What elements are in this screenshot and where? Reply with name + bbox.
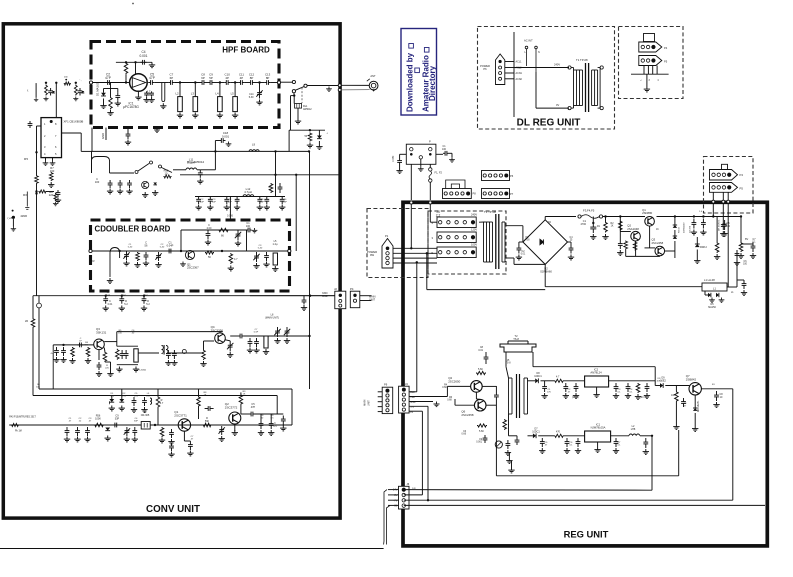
ground IC1: [135, 95, 141, 100]
label C82 label: [478, 346, 483, 352]
svg-text:5P: 5P: [209, 76, 213, 80]
capacitor C82b: [618, 240, 623, 249]
node: [35, 151, 37, 153]
ground L5: [232, 113, 238, 118]
wire to J2: [250, 295, 335, 297]
wire shunt lead: [219, 83, 221, 97]
ground C50: [274, 338, 280, 343]
svg-text:4.7: 4.7: [556, 376, 560, 379]
capacitor C59: [113, 423, 119, 428]
transistor Q4 2SC3356: [215, 333, 226, 344]
wire mixer out: [244, 335, 280, 337]
ground C60: [124, 437, 130, 442]
transistor Q6 2SC2458: [474, 399, 486, 411]
resistor R8v: [54, 193, 57, 201]
node: [258, 81, 260, 83]
svg-text:6P: 6P: [170, 76, 174, 80]
svg-text:120V: 120V: [471, 228, 477, 232]
resistor R1: [124, 62, 128, 74]
wire R22: [240, 392, 242, 394]
svg-text:4P: 4P: [225, 76, 229, 80]
wire: [105, 361, 111, 363]
svg-text:R 6: R 6: [23, 193, 27, 197]
svg-text:3SK131: 3SK131: [96, 330, 107, 334]
ground D2: [316, 144, 322, 149]
diode D8: [533, 433, 536, 438]
label C42 label: [124, 300, 128, 306]
svg-text:P6: P6: [483, 67, 487, 71]
wire sec left down: [508, 414, 510, 436]
svg-text:470: 470: [556, 431, 561, 434]
wire C18 drop: [214, 141, 216, 152]
svg-text:P4: P4: [350, 287, 354, 291]
node: [35, 190, 37, 192]
node: [410, 247, 412, 249]
ground C70: [280, 426, 286, 431]
ground D1: [100, 103, 106, 108]
wire: [541, 380, 555, 382]
connector P5: [639, 56, 662, 66]
ground R8v: [53, 202, 58, 206]
svg-text:(MAIN UNIT): (MAIN UNIT): [265, 316, 279, 319]
label POWER DL label: [480, 64, 490, 71]
svg-text:220: 220: [105, 368, 109, 370]
capacitor C11: [238, 80, 244, 85]
svg-text:10K: 10K: [36, 387, 40, 389]
terminal on CONV border b: [338, 88, 341, 91]
wire P9 stub: [378, 391, 383, 393]
wire Q3 out: [665, 250, 675, 252]
wire cap row: [195, 196, 285, 198]
wire: [519, 241, 523, 243]
wire relay drop: [290, 96, 292, 131]
ground C61: [132, 437, 138, 442]
ground C3: [115, 101, 121, 106]
svg-text:0.04P: 0.04P: [167, 244, 174, 248]
svg-text:J6: J6: [407, 482, 410, 486]
svg-text:0.1: 0.1: [752, 242, 756, 244]
speck +B: [12, 210, 14, 212]
ground C44d: [60, 357, 66, 362]
wire D3b: [696, 250, 698, 259]
node: [604, 215, 606, 217]
ground C101: [449, 157, 455, 162]
node: [179, 81, 181, 83]
wire bridge top: [544, 217, 546, 220]
svg-text:5-30: 5-30: [128, 247, 133, 249]
svg-text:240V: 240V: [554, 63, 560, 67]
capacitor C17: [56, 190, 61, 197]
ground C69: [268, 430, 274, 435]
svg-text:220: 220: [49, 193, 54, 197]
ground C78: [720, 231, 726, 236]
capacitor C83: [494, 386, 499, 406]
wire left bus c: [36, 184, 38, 296]
svg-text:30P: 30P: [260, 202, 264, 204]
resistor R11: [218, 228, 229, 232]
filter element L4: [218, 97, 223, 112]
label D1 label: [540, 267, 552, 274]
ground C82b: [617, 250, 623, 255]
svg-text:ACL1: ACL1: [516, 61, 523, 64]
wire: [93, 82, 130, 84]
capacitor C44b: [77, 343, 83, 348]
svg-text:R 5: R 5: [24, 157, 28, 161]
wire terminal b down: [429, 204, 431, 222]
ground XF1 b: [50, 161, 56, 166]
label L12 label: [244, 187, 252, 194]
wire 0V: [536, 107, 569, 109]
jack J1 contact b: [292, 90, 295, 93]
wire: [446, 386, 448, 396]
label r30 label: [122, 393, 127, 398]
wire Q3 emitter: [98, 350, 100, 360]
ground right stub: [508, 468, 514, 473]
svg-text:AC IN T: AC IN T: [524, 39, 533, 43]
label C4 label: [140, 50, 148, 58]
node: [105, 295, 107, 297]
wire J4 pin4: [409, 405, 428, 407]
connector P7: [482, 189, 510, 199]
trimmer capacitor C51: [284, 327, 290, 337]
capacitor C57: [75, 427, 80, 436]
svg-text:30P: 30P: [134, 421, 138, 423]
capacitor C74: [722, 220, 727, 230]
diode D7: [535, 378, 538, 383]
ground C97: [643, 449, 649, 454]
svg-text:L: L: [641, 79, 643, 81]
ground R31: [635, 394, 641, 399]
wire: [674, 241, 676, 251]
wire left bus 2a: [38, 296, 40, 303]
label r36 label: [204, 392, 208, 397]
label R17 label: [160, 399, 164, 405]
wire P2 pin drop a: [712, 192, 714, 200]
ground C26: [207, 205, 213, 210]
wire: [278, 335, 288, 337]
ground C87: [563, 393, 569, 398]
svg-text:ACN1: ACN1: [516, 72, 523, 75]
wire: [625, 250, 627, 257]
svg-text:D1 MA162: D1 MA162: [96, 82, 100, 96]
wire P9 stub: [378, 406, 383, 408]
label r22 label: [656, 378, 662, 383]
capacitor C47: [238, 334, 244, 339]
wire P2 pin drop c: [727, 192, 729, 200]
wire C73: [592, 217, 594, 224]
capacitor C28: [235, 197, 240, 205]
svg-text:4: 4: [432, 221, 434, 225]
svg-text:10DC1: 10DC1: [532, 430, 540, 433]
resistor R17: [156, 396, 160, 408]
ground L16: [263, 349, 269, 354]
relay contact arm: [295, 87, 304, 91]
resistor R22: [239, 394, 243, 405]
connector P3: [710, 170, 738, 181]
wire: [110, 362, 112, 371]
label r19 label: [569, 442, 573, 447]
connector J4: [437, 217, 476, 228]
svg-text:E: E: [658, 79, 660, 81]
label L14 label: [273, 240, 278, 246]
diode D9: [660, 383, 663, 388]
svg-text:DR SUR9.1: DR SUR9.1: [719, 219, 721, 231]
transistor Q2 2SC3772: [229, 412, 241, 424]
resistor R2: [109, 97, 113, 110]
wire IC2 out: [609, 380, 656, 382]
svg-text:56: 56: [145, 244, 148, 248]
trimmer capacitor C66: [219, 426, 225, 435]
diode D5b: [716, 293, 719, 297]
wire AC pin drop: [656, 66, 658, 75]
label r35 label: [270, 415, 274, 420]
resistor R23: [604, 222, 608, 233]
svg-text:AN78L24: AN78L24: [590, 371, 602, 375]
wire drop: [214, 151, 216, 169]
label r54 label: [436, 210, 441, 218]
watermark checkbox 2: [415, 68, 420, 73]
svg-text:F3,F4,F5: F3,F4,F5: [583, 209, 595, 213]
wire IC1 emitter: [137, 91, 139, 94]
transistor Q1 2SC3771: [178, 419, 190, 431]
label Q2 reg label: [627, 224, 639, 231]
label r15 label: [568, 389, 572, 394]
svg-text:C6: C6: [744, 261, 748, 263]
ground C17: [55, 198, 61, 203]
svg-text:100: 100: [671, 394, 676, 397]
label C43 label: [146, 300, 150, 306]
wire Q7 out drop: [732, 389, 734, 500]
wire shunt lead: [234, 83, 236, 97]
svg-text:40P: 40P: [228, 202, 232, 204]
capacitor C15: [126, 131, 131, 139]
capacitor C71: [517, 245, 522, 254]
svg-text:TS-8: TS-8: [513, 337, 519, 341]
ground C38: [252, 228, 258, 233]
node: [293, 94, 295, 96]
wire P1 pin: [393, 257, 437, 259]
ground L13: [107, 278, 113, 283]
label MAIN UNIT label: [369, 295, 376, 302]
node: [309, 295, 311, 297]
ground D10: [692, 426, 698, 431]
wire J6 bundle b: [386, 505, 390, 544]
wire cdoubler main: [92, 250, 289, 252]
terminal b: [429, 201, 432, 204]
resistor R9: [269, 183, 273, 193]
ground C30: [264, 205, 270, 210]
ground C75: [750, 253, 756, 258]
inductor T4 loops: [162, 345, 169, 355]
wire rail b: [603, 216, 645, 218]
svg-text:L2: L2: [176, 92, 180, 96]
wire P1 pin: [393, 262, 437, 264]
capacitor C46b: [166, 350, 171, 359]
wire C15 lead: [127, 128, 129, 131]
label L2 label: [631, 425, 636, 431]
svg-text:000: 000: [64, 77, 68, 79]
wire: [619, 232, 621, 241]
ground C21: [117, 189, 123, 194]
ground C42: [119, 306, 125, 311]
wire T1 out top: [506, 225, 523, 227]
svg-text:HPF BOARD: HPF BOARD: [222, 46, 270, 55]
wire: [568, 241, 572, 243]
REG UNIT board outline: [403, 202, 767, 546]
wire tank top: [117, 345, 138, 347]
svg-text:4.7: 4.7: [234, 258, 238, 261]
ground C72: [568, 255, 574, 260]
wire: [694, 395, 696, 408]
svg-text:2SC2650: 2SC2650: [448, 379, 460, 383]
label r20 label: [617, 442, 621, 447]
label C2 label: [105, 73, 111, 81]
capacitor C3: [115, 93, 120, 101]
resistor R27: [476, 371, 486, 374]
svg-text:VR8: VR8: [410, 397, 415, 399]
wire: [516, 436, 518, 437]
capacitor C80: [692, 219, 697, 229]
svg-text:C9: C9: [479, 439, 483, 441]
ground J4 pin3: [433, 402, 439, 407]
svg-text:100: 100: [246, 225, 251, 228]
label C14 label: [249, 93, 254, 99]
capacitor C84: [483, 435, 488, 443]
capacitor C6a: [144, 91, 149, 97]
wire to ANT: [307, 85, 338, 87]
terminal on border b: [722, 200, 725, 203]
ground C80: [691, 230, 697, 235]
wire 8V riser: [426, 253, 428, 289]
ground C40: [263, 262, 269, 267]
relay coil RL1: [295, 104, 302, 109]
svg-text:3: 3: [432, 236, 434, 240]
wire Q3 base line: [53, 344, 93, 346]
wire 240V: [514, 67, 569, 69]
ground Q5: [142, 192, 148, 197]
wire D1 bottom: [103, 99, 105, 104]
label POWER label: [367, 250, 377, 257]
svg-text:B1: B1: [712, 384, 715, 386]
node: [45, 82, 47, 84]
antenna jack ANT: [367, 79, 378, 92]
svg-text:4M1B: 4M1B: [20, 215, 27, 218]
capacitor C61: [132, 427, 137, 436]
transistor Q1 2SC2367: [185, 250, 194, 259]
label r2 label: [570, 237, 574, 242]
wire feedback L: [52, 345, 54, 389]
wire: [297, 108, 299, 118]
resistor R19: [160, 427, 164, 437]
transistor Q1 2SD880: [645, 217, 655, 227]
label Q4 reg label: [448, 376, 460, 383]
terminal ring: [182, 350, 186, 354]
wire Q2 emitter: [234, 424, 236, 431]
label C5 label: [149, 73, 155, 81]
wire: [620, 231, 631, 233]
CDOUBLER output terminal: [288, 249, 291, 252]
label C18 label: [222, 131, 230, 138]
svg-text:AR5012: AR5012: [303, 108, 312, 111]
wire: [506, 367, 509, 378]
svg-text:5-30: 5-30: [160, 247, 165, 249]
svg-text:CONV UNIT: CONV UNIT: [146, 504, 200, 515]
svg-text:T1 TP-08: T1 TP-08: [484, 210, 496, 214]
wire out row: [255, 413, 283, 415]
capacitor C55: [142, 397, 147, 406]
ground C74: [721, 231, 727, 236]
ground C57: [74, 437, 80, 442]
ground R7: [48, 182, 54, 187]
wire drop cap: [722, 203, 724, 221]
wire main line: [174, 82, 200, 84]
diode D6: [105, 428, 110, 431]
relay actuator dashed: [301, 88, 303, 104]
capacitor C75: [751, 242, 756, 252]
node: [274, 150, 276, 152]
wire sec out bottom: [528, 435, 533, 437]
ground C28: [234, 205, 240, 210]
label r38 label: [106, 292, 111, 297]
jack J1 contact a: [292, 80, 295, 83]
ground D5b: [719, 298, 725, 303]
capacitor C54: [132, 397, 137, 406]
node: [308, 150, 310, 152]
svg-text:S1RBA60: S1RBA60: [540, 270, 552, 274]
label r42 label: [118, 330, 122, 335]
capacitor C31: [280, 197, 285, 205]
wire: [399, 154, 401, 158]
wire tank bottom: [117, 364, 138, 366]
wire loop bottom: [496, 475, 678, 477]
wire pin4 drop: [427, 406, 429, 500]
capacitor C94: [565, 438, 570, 447]
speck: [132, 3, 134, 5]
wire bridge bottom drop: [544, 264, 546, 286]
wire +B: [12, 219, 14, 227]
wire: [45, 158, 47, 161]
ground C96: [613, 448, 619, 453]
ground C93: [539, 448, 545, 453]
ground C31: [279, 205, 285, 210]
capacitor C21: [118, 180, 123, 188]
svg-text:L4: L4: [215, 92, 219, 96]
capacitor C68: [259, 420, 264, 429]
resistor R43: [11, 424, 19, 427]
svg-text:L5: L5: [231, 92, 235, 96]
svg-text:25: 25: [570, 240, 573, 242]
svg-text:f .: f .: [27, 89, 29, 93]
capacitor C6b: [149, 91, 154, 97]
node: [118, 250, 120, 252]
wire AC pin drop: [652, 66, 654, 75]
ground C20: [107, 189, 113, 194]
label Q1 reg label: [642, 208, 653, 215]
resistor R3: [308, 133, 312, 142]
svg-text:0.1: 0.1: [617, 392, 621, 394]
wire D2 b: [318, 141, 320, 144]
diode D2: [317, 136, 322, 139]
wire: [479, 221, 485, 223]
ground R19: [159, 438, 165, 443]
wire IC1 gnd: [597, 442, 599, 447]
label C45e label: [105, 365, 109, 370]
svg-text:8V: 8V: [745, 237, 748, 241]
inductor L2: [629, 434, 640, 436]
capacitor C41: [103, 296, 108, 304]
svg-text:8V: 8V: [410, 412, 413, 414]
svg-text:100K: 100K: [95, 417, 101, 420]
